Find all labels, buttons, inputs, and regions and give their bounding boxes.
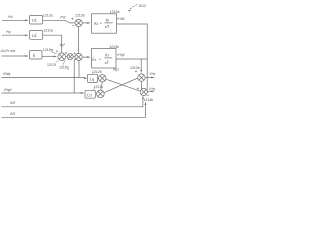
svg-text:1212b: 1212b [92, 70, 102, 74]
plus mark sum 1214b [137, 88, 139, 90]
svg-text:sT̂: sT̂ [105, 24, 110, 29]
summing junction 1214b [140, 88, 147, 95]
plus mark before C [73, 52, 75, 54]
wire row2 input [2, 34, 28, 36]
svg-text:K̂r: K̂r [92, 57, 97, 62]
wire output vq [147, 90, 154, 92]
block 1211a (filter q-axis) [30, 31, 43, 40]
svg-text:ε̂q*: ε̂q* [60, 43, 66, 47]
svg-text:K̂r: K̂r [106, 17, 111, 22]
leader 1212w [51, 52, 57, 54]
minus mark sum1 below [72, 25, 74, 27]
wire B to C [73, 56, 75, 58]
plus mark line3 entry [147, 94, 149, 96]
block 1212w gain [30, 51, 43, 59]
svg-text:1212w: 1212w [43, 48, 54, 52]
block 1212b (Lq gain) [88, 74, 98, 82]
wire v*q output [116, 58, 147, 60]
summing junction 1212b [75, 19, 82, 26]
svg-text:1212b: 1212b [75, 13, 85, 17]
svg-text:1214b: 1214b [144, 98, 154, 102]
leader 1215g [63, 60, 66, 65]
plus mark A left [56, 50, 58, 52]
svg-text:1212f: 1212f [47, 63, 56, 67]
wire feedback sum1 vertical to C [78, 27, 80, 54]
svg-text:1213b: 1213b [109, 45, 119, 49]
svg-text:v̂*d1: v̂*d1 [117, 17, 125, 21]
multiplier Md [97, 90, 105, 98]
leader 1212f [56, 60, 59, 62]
svg-text:1012: 1012 [138, 4, 146, 8]
wire Lq-Ld multiplier link [101, 82, 103, 90]
wire sum1 to PI1 [82, 22, 90, 24]
svg-text:ε̂*qd: ε̂*qd [4, 88, 12, 92]
svg-text:Gω̂*r est: Gω̂*r est [1, 49, 17, 53]
svg-text:K̂: K̂ [33, 53, 36, 58]
svg-text:v̄*d: v̄*d [150, 72, 156, 76]
wire feedback line1 [2, 77, 87, 79]
svg-text:v̂q1: v̂q1 [113, 68, 119, 72]
svg-text:L̂d: L̂d [87, 92, 91, 97]
wire sum 1214a to 1214b link [140, 81, 142, 89]
wire feedback line3 [2, 96, 144, 107]
wire Mq to sum 1214b (cross diagonal) [106, 79, 140, 91]
wire Lq to Mq [97, 77, 100, 79]
wire line2 riser [74, 59, 76, 93]
wire row2 to multiplier A [43, 35, 62, 53]
wire feedback line4 [2, 102, 147, 117]
plus mark between A B [65, 52, 67, 54]
wire block3 to A [42, 56, 56, 58]
op-amp PI controller U1213a [92, 14, 117, 33]
svg-text:x̂2f: x̂2f [9, 112, 16, 116]
op-amp PI controller U1213b [92, 49, 117, 69]
svg-text:1/L̂: 1/L̂ [32, 33, 38, 38]
label 1012 with dashed leader [128, 4, 146, 12]
wire block1 to sum1 [43, 20, 75, 23]
wire row1 input [2, 19, 28, 21]
wire C to PI2 [82, 56, 90, 58]
svg-text:1/L̂: 1/L̂ [32, 18, 38, 23]
svg-text:v̄*q: v̄*q [149, 87, 155, 91]
svg-text:ε̂*dq: ε̂*dq [3, 72, 11, 76]
svg-text:K̂r: K̂r [105, 52, 110, 57]
wire output vd [145, 77, 154, 79]
wire v*d output to lower sum [117, 24, 148, 90]
svg-text:1215g: 1215g [59, 66, 69, 70]
block 1212a (filter d-axis) [30, 16, 43, 25]
wire feedback line2 [2, 92, 84, 94]
wire v*q drop to sum 1214a [140, 59, 142, 72]
svg-text:1211a: 1211a [43, 29, 53, 33]
plus mark sum1 left [71, 18, 73, 20]
multiplier A [58, 53, 66, 61]
svg-text:1213b: 1213b [130, 66, 140, 70]
svg-text:L̂q: L̂q [90, 76, 94, 81]
wire row3 input [2, 55, 28, 57]
svg-text:sT̂: sT̂ [105, 60, 110, 65]
svg-text:K̂r: K̂r [94, 21, 99, 26]
block 1211b (Ld gain) [85, 90, 95, 98]
svg-text:1213a: 1213a [110, 10, 120, 14]
summing junction 1214a [138, 74, 145, 81]
multiplier Mq [99, 75, 106, 82]
wire A to B [66, 56, 68, 58]
svg-text:x̂1f: x̂1f [9, 101, 16, 105]
svg-text:1212a: 1212a [43, 13, 53, 17]
wire Md to sum 1214a (cross diagonal) [104, 78, 138, 93]
svg-text:ε̂*d: ε̂*d [60, 15, 66, 19]
summing junction C [75, 53, 82, 60]
multiplier B [67, 54, 73, 60]
wire C down to line1 [78, 61, 80, 78]
plus mark sum 1214a [135, 70, 137, 72]
leader 1212b lower [91, 73, 93, 74]
leader 1211b lower [93, 88, 95, 90]
svg-text:v̂*q1: v̂*q1 [117, 53, 125, 57]
